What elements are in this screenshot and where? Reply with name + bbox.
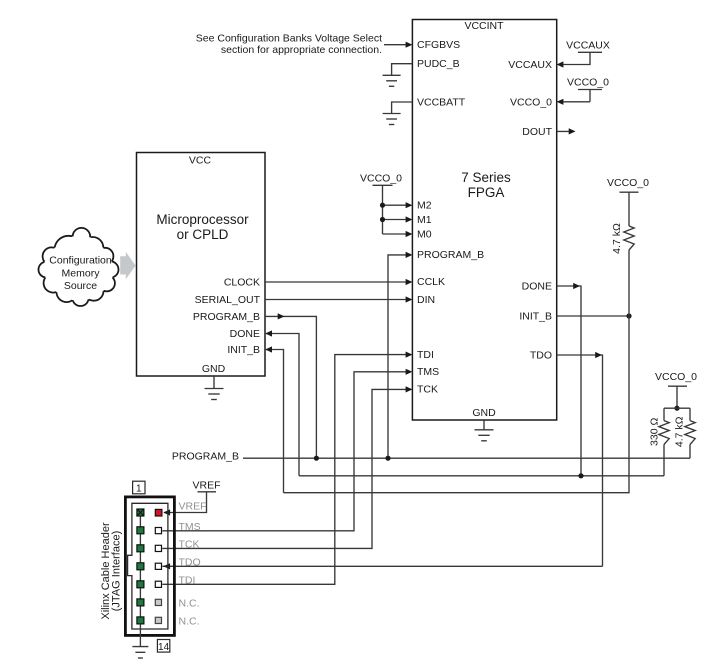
svg-text:VCCO_0: VCCO_0 xyxy=(510,96,552,108)
VCCO_0 power symbol for INIT_B pullup xyxy=(607,177,649,226)
svg-text:N.C.: N.C. xyxy=(179,615,200,627)
svg-text:VCCO_0: VCCO_0 xyxy=(567,77,609,89)
wire PROGRAM_B net xyxy=(243,457,690,459)
wire CCLK from CLOCK xyxy=(265,281,411,283)
svg-text:VCCINT: VCCINT xyxy=(464,20,504,32)
PUDC_B ground wire xyxy=(392,64,413,76)
svg-text:DOUT: DOUT xyxy=(522,126,552,138)
node dot pullup rail xyxy=(674,406,679,411)
wire INIT_B to microprocessor xyxy=(266,350,284,493)
svg-text:FPGA: FPGA xyxy=(468,185,505,200)
FPGA block xyxy=(412,20,556,421)
svg-text:SERIAL_OUT: SERIAL_OUT xyxy=(195,294,261,306)
wire M2 xyxy=(383,204,412,206)
arrowhead into micro INIT_B xyxy=(265,346,272,352)
arrowhead on PROGRAM_B from micro xyxy=(278,313,285,319)
node dot M1 xyxy=(380,217,385,222)
JTAG ground bus wire xyxy=(139,513,141,647)
node dot INIT_B pullup xyxy=(626,313,631,318)
ground below FPGA xyxy=(475,420,494,441)
resistor R 4.7k PROGRAM_B pullup xyxy=(689,408,691,420)
pin 1 GND square with X xyxy=(137,509,144,516)
arrowhead into micro DONE xyxy=(265,330,272,336)
node dot M2 xyxy=(380,203,385,208)
svg-text:VCCO_0: VCCO_0 xyxy=(360,173,402,185)
svg-text:VREF: VREF xyxy=(192,480,220,492)
svg-text:CFGBVS: CFGBVS xyxy=(417,39,460,51)
VCCBATT ground wire xyxy=(392,102,413,114)
svg-text:See Configuration Banks Voltag: See Configuration Banks Voltage Select xyxy=(196,33,382,45)
pin 2 VREF square (red) xyxy=(155,509,162,516)
svg-text:CLOCK: CLOCK xyxy=(224,277,260,289)
svg-text:TDI: TDI xyxy=(417,349,434,361)
svg-text:PROGRAM_B: PROGRAM_B xyxy=(193,311,260,323)
wire TDO from FPGA xyxy=(557,355,603,566)
svg-text:VREF: VREF xyxy=(179,501,207,513)
pin 5 GND square xyxy=(137,545,144,552)
svg-text:VCCAUX: VCCAUX xyxy=(566,40,610,52)
gray block arrow cloud to microprocessor xyxy=(120,252,135,279)
wire DONE to microprocessor xyxy=(266,334,299,476)
pin 6 TCK square xyxy=(155,545,161,551)
arrowhead TDO out xyxy=(595,352,602,358)
ground at PUDC_B xyxy=(383,75,401,86)
arrowhead into VREF pin xyxy=(163,509,170,515)
node dot FPGA PROGRAM_B join xyxy=(385,456,390,461)
svg-text:M2: M2 xyxy=(417,200,432,212)
svg-text:4.7 kΩ: 4.7 kΩ xyxy=(611,223,623,254)
svg-text:DONE: DONE xyxy=(522,280,552,292)
svg-text:DIN: DIN xyxy=(417,294,435,306)
pin 13 GND square xyxy=(137,617,144,624)
wire M1 xyxy=(383,219,412,221)
svg-text:Source: Source xyxy=(64,280,97,292)
ground below microprocessor xyxy=(205,376,224,400)
svg-text:TMS: TMS xyxy=(179,521,201,533)
svg-text:VCCO_0: VCCO_0 xyxy=(607,177,649,189)
wire DONE from FPGA xyxy=(557,286,581,476)
svg-text:CCLK: CCLK xyxy=(417,276,445,288)
svg-text:M0: M0 xyxy=(417,228,432,240)
VCCAUX power symbol xyxy=(557,40,610,68)
svg-text:7 Series: 7 Series xyxy=(461,170,511,185)
wire TMS from JTAG xyxy=(162,372,411,531)
svg-text:VCCO_0: VCCO_0 xyxy=(655,371,697,383)
wire INIT_B pullup down xyxy=(284,250,630,493)
svg-text:TDI: TDI xyxy=(179,574,196,586)
svg-text:330 Ω: 330 Ω xyxy=(649,418,661,446)
wire to CFGBVS pin xyxy=(384,44,411,46)
wire PROGRAM_B from microprocessor xyxy=(265,316,316,458)
svg-text:Microprocessor: Microprocessor xyxy=(156,212,249,227)
svg-text:PROGRAM_B: PROGRAM_B xyxy=(172,450,239,462)
wire TDI from JTAG xyxy=(162,355,411,585)
VCCO_0 power symbol for mode pins xyxy=(360,173,402,235)
wire DONE net horizontal xyxy=(299,475,664,477)
svg-text:N.C.: N.C. xyxy=(179,597,200,609)
pin 10 TDI square xyxy=(155,581,161,587)
svg-text:(JTAG Interface): (JTAG Interface) xyxy=(111,531,123,611)
svg-text:14: 14 xyxy=(158,642,170,653)
arrowhead DONE out xyxy=(573,283,580,289)
svg-text:1: 1 xyxy=(136,484,142,495)
wire VREF to pin2 xyxy=(164,492,207,513)
svg-text:VCCBATT: VCCBATT xyxy=(417,97,466,109)
svg-text:INIT_B: INIT_B xyxy=(227,344,260,356)
pin 4 TMS square xyxy=(155,528,161,534)
pin 3 GND square xyxy=(137,527,144,534)
wire FPGA PROGRAM_B pin vertical xyxy=(388,255,411,458)
resistor R 4.7k INIT_B pullup xyxy=(624,226,634,250)
svg-text:INIT_B: INIT_B xyxy=(519,310,552,322)
wire TCK from JTAG xyxy=(162,389,411,548)
VCCO_0 power symbol for DONE/PROGRAM_B pullups xyxy=(655,371,697,408)
pin 7 GND square xyxy=(137,563,144,570)
pin 11 GND square xyxy=(137,599,144,606)
svg-text:M1: M1 xyxy=(417,214,432,226)
svg-text:4.7 kΩ: 4.7 kΩ xyxy=(674,416,686,447)
wire DIN from SERIAL_OUT xyxy=(265,299,411,301)
arrowhead into JTAG TDO pin xyxy=(162,565,602,567)
svg-text:TMS: TMS xyxy=(417,366,439,378)
svg-text:Memory: Memory xyxy=(62,268,101,280)
svg-text:Configuration: Configuration xyxy=(49,255,112,267)
svg-text:GND: GND xyxy=(472,407,496,419)
svg-text:TCK: TCK xyxy=(179,539,200,551)
pin 14 index box xyxy=(157,640,169,653)
svg-text:TCK: TCK xyxy=(417,384,438,396)
arrowhead DOUT out xyxy=(569,128,576,134)
svg-text:PROGRAM_B: PROGRAM_B xyxy=(417,249,484,261)
svg-text:VCC: VCC xyxy=(189,155,212,167)
pin 1 index box xyxy=(133,481,145,494)
VCCO_0 power symbol (bank 0 pin) xyxy=(557,77,610,105)
resistor R 330 DONE pullup xyxy=(663,408,665,420)
cloud Configuration Memory Source xyxy=(39,228,119,306)
svg-text:VCCAUX: VCCAUX xyxy=(508,59,552,71)
pin 12 NC square (gray) xyxy=(155,599,161,605)
pin 8 TDO square xyxy=(155,563,161,569)
svg-text:or CPLD: or CPLD xyxy=(177,227,229,242)
ground at VCCBATT xyxy=(383,114,401,125)
JTAG header outer body xyxy=(125,497,174,636)
svg-text:section for appropriate connec: section for appropriate connection. xyxy=(221,44,382,56)
microprocessor block xyxy=(137,153,266,377)
wire INIT_B from FPGA to pullup xyxy=(557,315,629,317)
node dot micro PROGRAM_B join xyxy=(314,456,319,461)
ground below JTAG header xyxy=(132,647,148,658)
JTAG header inner outline with key notch xyxy=(128,503,168,629)
svg-text:PUDC_B: PUDC_B xyxy=(417,58,460,70)
svg-text:TDO: TDO xyxy=(530,349,552,361)
wire M0 xyxy=(383,233,412,235)
pin 14 NC square (gray) xyxy=(155,617,161,623)
arrowhead into CFGBVS xyxy=(406,42,413,48)
pullup rail xyxy=(664,407,690,409)
pin 9 GND square xyxy=(137,581,144,588)
svg-text:TDO: TDO xyxy=(179,556,201,568)
svg-text:DONE: DONE xyxy=(230,328,260,340)
svg-text:GND: GND xyxy=(202,363,226,375)
DOUT wire xyxy=(557,130,574,132)
node dot DONE join xyxy=(578,473,583,478)
